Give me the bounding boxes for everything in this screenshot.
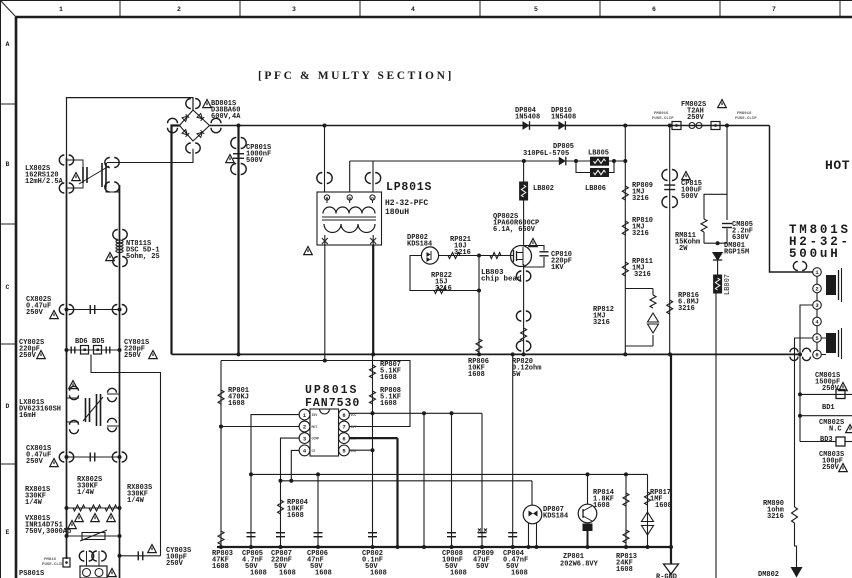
- svg-text:3216: 3216: [632, 230, 649, 238]
- svg-text:1608: 1608: [511, 570, 528, 578]
- svg-text:2: 2: [303, 424, 306, 431]
- svg-text:FAN7530: FAN7530: [305, 397, 360, 410]
- svg-text:3216: 3216: [593, 319, 610, 327]
- svg-text:1608: 1608: [380, 374, 397, 382]
- svg-text:250V: 250V: [124, 352, 142, 360]
- svg-text:3216: 3216: [634, 271, 651, 279]
- svg-text:CS: CS: [312, 449, 316, 453]
- svg-text:1N5408: 1N5408: [551, 114, 576, 122]
- svg-text:FM801S: FM801S: [654, 112, 669, 116]
- svg-text:1: 1: [59, 6, 63, 13]
- svg-text:6: 6: [342, 435, 345, 442]
- svg-text:1/4W: 1/4W: [77, 489, 95, 497]
- svg-text:250V: 250V: [26, 309, 44, 317]
- svg-text:500uH: 500uH: [789, 247, 841, 261]
- svg-text:BD3: BD3: [820, 436, 833, 444]
- svg-text:1608: 1608: [250, 570, 267, 578]
- svg-text:6: 6: [815, 352, 818, 359]
- svg-text:FM801S: FM801S: [737, 112, 752, 116]
- svg-text:FUSE-CLIP: FUSE-CLIP: [652, 117, 674, 121]
- svg-text:FUSE-CLIP: FUSE-CLIP: [42, 563, 64, 567]
- svg-text:2W: 2W: [679, 245, 688, 253]
- svg-text:3216: 3216: [454, 249, 471, 257]
- svg-text:250V: 250V: [166, 560, 184, 568]
- svg-text:2: 2: [177, 6, 181, 13]
- svg-text:5W: 5W: [512, 371, 521, 379]
- svg-text:310P6L-5705: 310P6L-5705: [523, 150, 569, 158]
- svg-text:180uH: 180uH: [385, 208, 409, 217]
- svg-text:202W6.8VY: 202W6.8VY: [560, 561, 599, 569]
- svg-text:500V: 500V: [246, 157, 264, 165]
- svg-text:1KV: 1KV: [551, 264, 564, 272]
- svg-text:MOT: MOT: [312, 425, 318, 429]
- svg-text:LB802: LB802: [533, 185, 554, 193]
- svg-text:1608: 1608: [370, 570, 387, 578]
- svg-text:A: A: [6, 41, 10, 48]
- svg-text:50V: 50V: [476, 563, 489, 571]
- svg-text:4: 4: [411, 6, 415, 13]
- svg-text:FUSE-CLIP: FUSE-CLIP: [735, 117, 757, 121]
- svg-text:PS801S: PS801S: [19, 570, 44, 578]
- svg-text:chip bead: chip bead: [481, 276, 522, 284]
- svg-text:1608: 1608: [468, 371, 485, 379]
- svg-text:3: 3: [292, 6, 296, 13]
- svg-text:FM81S: FM81S: [44, 558, 57, 562]
- svg-text:6: 6: [652, 6, 656, 13]
- svg-text:12mH/2.5A: 12mH/2.5A: [25, 178, 64, 186]
- svg-text:1608: 1608: [315, 570, 332, 578]
- svg-text:COMP: COMP: [312, 437, 320, 441]
- svg-text:E: E: [6, 529, 10, 536]
- svg-text:250V: 250V: [26, 458, 44, 466]
- svg-text:16mH: 16mH: [19, 412, 36, 420]
- svg-text:5: 5: [534, 6, 538, 13]
- svg-text:1608: 1608: [287, 512, 304, 520]
- svg-text:N.C: N.C: [829, 426, 842, 434]
- svg-text:INV: INV: [312, 413, 318, 417]
- svg-text:[PFC & MULTY SECTION]: [PFC & MULTY SECTION]: [258, 70, 454, 82]
- svg-text:1608: 1608: [616, 566, 633, 574]
- svg-text:BD5: BD5: [92, 338, 105, 346]
- svg-text:KDS184: KDS184: [407, 241, 432, 249]
- svg-text:750V,3000Ap: 750V,3000Ap: [25, 528, 71, 536]
- svg-text:R-GND: R-GND: [656, 574, 677, 578]
- svg-text:1608: 1608: [655, 502, 672, 510]
- svg-text:3216: 3216: [678, 305, 695, 313]
- svg-text:7: 7: [342, 424, 345, 431]
- svg-text:3216: 3216: [767, 513, 784, 521]
- svg-text:LP801S: LP801S: [386, 181, 432, 194]
- svg-text:5ohm, 2S: 5ohm, 2S: [126, 253, 160, 261]
- svg-text:2: 2: [815, 286, 818, 293]
- svg-text:3216: 3216: [435, 285, 452, 293]
- svg-text:1608: 1608: [593, 502, 610, 510]
- svg-text:BD1: BD1: [822, 404, 835, 412]
- svg-text:HOT: HOT: [825, 158, 850, 173]
- svg-text:OUT: OUT: [351, 425, 357, 429]
- svg-text:3216: 3216: [632, 195, 649, 203]
- svg-text:C: C: [6, 284, 10, 291]
- svg-text:250V: 250V: [19, 352, 37, 360]
- svg-text:ZCD: ZCD: [351, 449, 357, 453]
- svg-text:B: B: [6, 161, 10, 168]
- svg-text:D: D: [6, 403, 10, 410]
- svg-text:250V: 250V: [822, 464, 840, 472]
- svg-text:1608: 1608: [279, 570, 296, 578]
- svg-text:1/4W: 1/4W: [127, 497, 145, 505]
- svg-text:6.1A, 650V: 6.1A, 650V: [493, 226, 536, 234]
- svg-text:600V,4A: 600V,4A: [211, 113, 241, 121]
- svg-text:1/4W: 1/4W: [25, 499, 43, 507]
- svg-text:500V: 500V: [681, 193, 699, 201]
- svg-text:1608: 1608: [212, 563, 229, 571]
- svg-text:630V: 630V: [732, 234, 750, 242]
- svg-text:BD6: BD6: [75, 338, 88, 346]
- svg-text:1608: 1608: [450, 570, 467, 578]
- svg-text:1608: 1608: [380, 400, 397, 408]
- svg-text:KDS184: KDS184: [543, 513, 568, 521]
- svg-text:1608: 1608: [228, 400, 245, 408]
- svg-text:7: 7: [772, 6, 776, 13]
- svg-text:LB806: LB806: [585, 185, 606, 193]
- svg-text:DM802: DM802: [758, 571, 779, 578]
- svg-text:UP801S: UP801S: [305, 384, 358, 397]
- svg-text:RGP15M: RGP15M: [724, 249, 749, 257]
- svg-text:LB807: LB807: [724, 274, 732, 295]
- svg-text:LB805: LB805: [588, 150, 609, 158]
- svg-text:250V: 250V: [687, 114, 705, 122]
- svg-text:250V: 250V: [822, 385, 840, 393]
- svg-text:1N5408: 1N5408: [515, 114, 540, 122]
- svg-text:H2-32-PFC: H2-32-PFC: [385, 199, 428, 208]
